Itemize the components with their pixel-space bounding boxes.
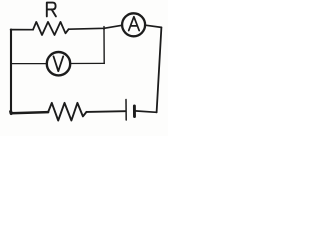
resistor R2 rheostat zigzag [48, 103, 86, 121]
wire top middle segment [69, 25, 122, 29]
node junction stub [103, 27, 105, 30]
ammeter U1 circle [122, 13, 145, 36]
wire left vertical [10, 30, 12, 114]
wire voltmeter branch vertical [103, 28, 105, 63]
battery B1 long plate [125, 100, 127, 121]
battery B1 short plate [133, 106, 136, 117]
label R [47, 3, 56, 17]
wire right vertical [157, 27, 162, 112]
label A [129, 17, 140, 31]
wire voltmeter branch left [11, 63, 47, 65]
wire battery to rheostat [87, 110, 126, 113]
voltmeter U2 circle [47, 52, 70, 75]
wire top right segment [145, 25, 161, 27]
wire bottom left segment [11, 112, 48, 113]
junction bottom-left corner nub [9, 112, 13, 114]
wire voltmeter branch right [70, 62, 104, 64]
label V [54, 56, 64, 71]
wire bottom right segment [135, 111, 157, 112]
resistor R1 zigzag [33, 22, 69, 35]
wire top left segment [11, 29, 33, 31]
